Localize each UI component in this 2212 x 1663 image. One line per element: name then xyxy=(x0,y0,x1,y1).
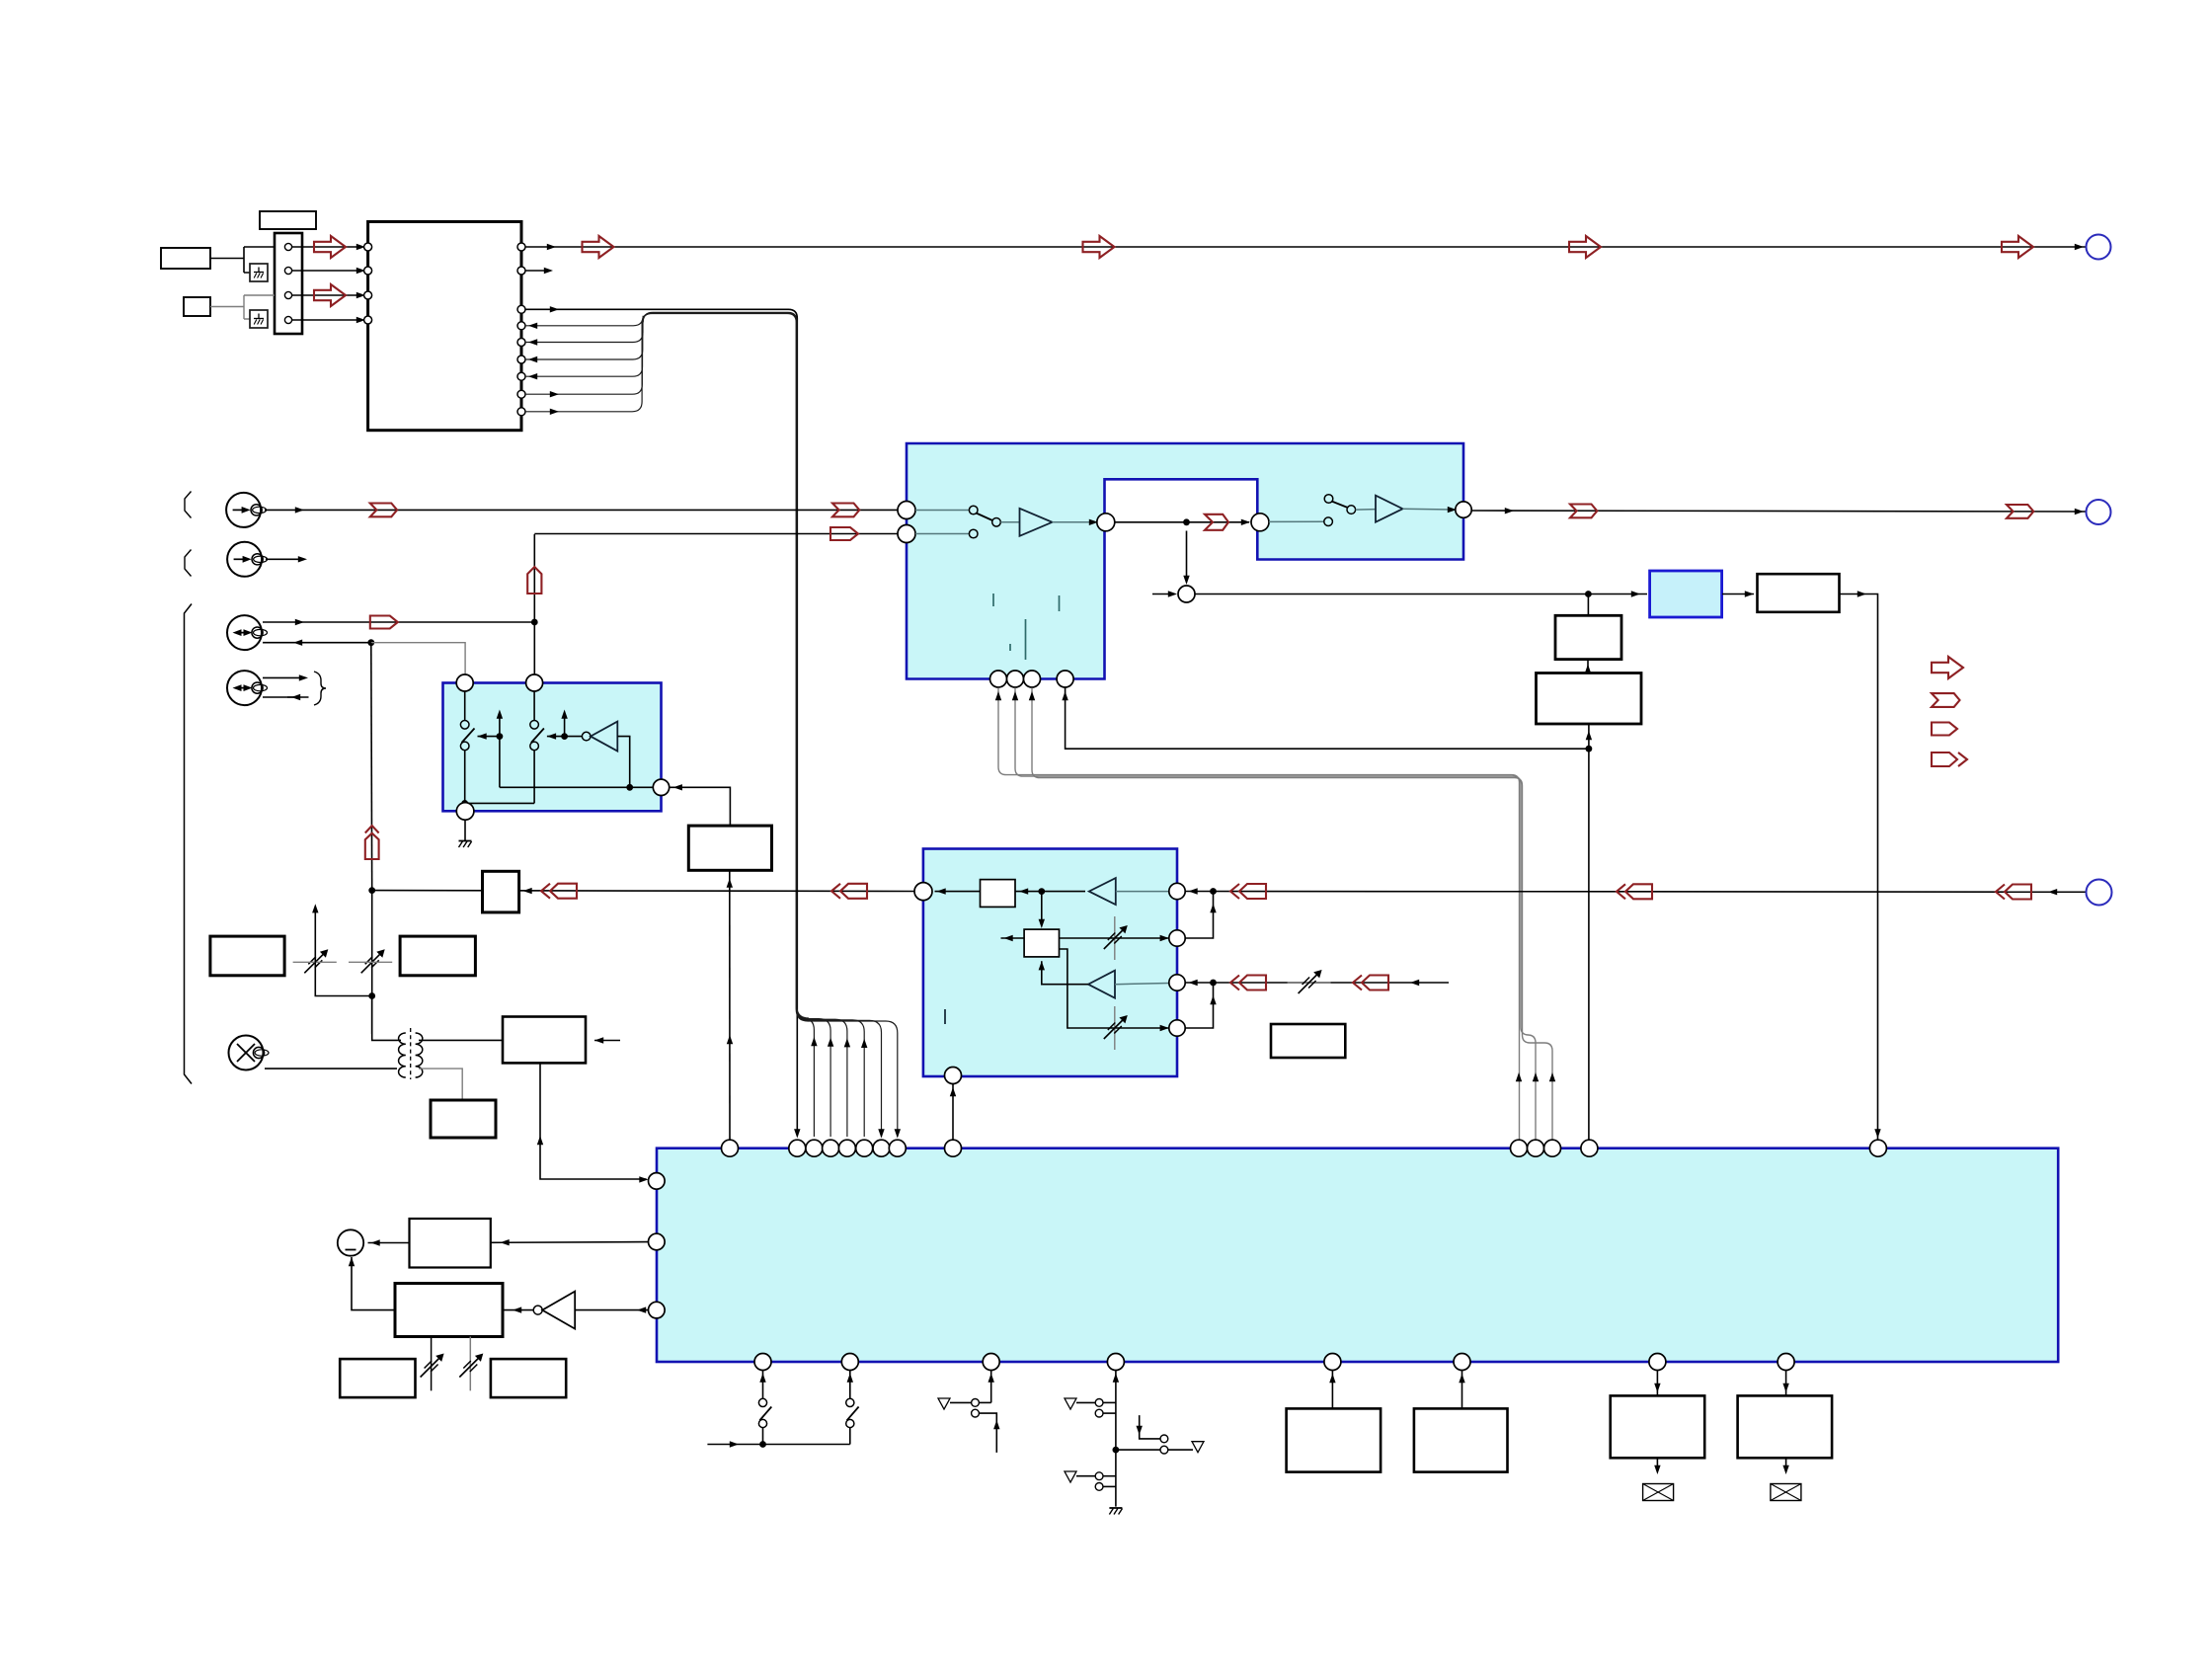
red chev xyxy=(1570,505,1597,518)
wire pin r1 loop xyxy=(1186,892,1214,939)
wire U1 pin5 bundle xyxy=(525,313,830,1137)
stub into sum node xyxy=(1152,594,1173,595)
white box R2 xyxy=(1271,1024,1345,1058)
line y995 right xyxy=(1186,982,1450,984)
white box8 xyxy=(410,1219,491,1268)
block3 box i2 xyxy=(1024,929,1059,957)
block3 pin r1 xyxy=(1169,883,1185,899)
bracket mark 1 xyxy=(185,492,192,518)
block3 i2 right wire pot P1 xyxy=(1060,937,1169,939)
box6 down wire xyxy=(540,1063,647,1179)
U1 right pin y=416.8 xyxy=(517,408,525,416)
pot P3 xyxy=(1288,982,1331,984)
rail block1 out to J-mid xyxy=(1471,511,2086,512)
block1 bottom pins xyxy=(990,671,1007,687)
wire vertical x=541 xyxy=(533,534,535,675)
red arrow pent xyxy=(370,616,398,629)
jack J1 xyxy=(226,493,261,527)
white box WR xyxy=(1758,574,1840,612)
output circle J-mid xyxy=(2087,500,2111,524)
wire U1 pin3 bundle top xyxy=(525,309,797,1136)
U1 left pin y=250 xyxy=(364,243,372,251)
red up arrow tall xyxy=(365,826,379,833)
red chev xyxy=(2007,505,2033,518)
red arrow on top rail xyxy=(1083,236,1115,258)
jack J4 xyxy=(227,671,262,705)
block3 amp L1 xyxy=(1089,878,1116,905)
white box10 xyxy=(340,1359,415,1397)
envelope E1 xyxy=(1643,1484,1674,1501)
white box6 xyxy=(503,1017,586,1064)
legend arrow 2 xyxy=(1932,693,1960,707)
block3 amp2 out xyxy=(1042,961,1088,985)
node circle N1 xyxy=(1097,514,1115,531)
red arrow chevron xyxy=(832,504,859,517)
transformer secondary top lead xyxy=(419,1039,503,1041)
selector C xyxy=(990,1371,992,1403)
block3 pin bottom xyxy=(945,1068,962,1084)
bottom block top pins xyxy=(722,1140,739,1156)
block3 wire dot to i1 xyxy=(1015,891,1085,893)
inverter I2 xyxy=(533,1306,542,1314)
gray bundle wire 2 xyxy=(1015,688,1536,1140)
block2 pin t2 xyxy=(526,674,543,691)
block3 pin r2 xyxy=(1169,930,1185,946)
IC block2 cyan body xyxy=(443,683,662,812)
U1 right pin y=346.5 xyxy=(517,339,525,347)
red arrow pent xyxy=(830,527,858,540)
block1 switch SW2 xyxy=(1324,517,1333,526)
node dot xyxy=(1183,518,1190,525)
IC block1 cyan body xyxy=(907,443,1463,679)
ground G2 xyxy=(250,310,268,328)
red dchevL xyxy=(550,884,577,899)
node dot x=1608 xyxy=(1585,591,1592,597)
label box xyxy=(260,211,316,229)
IC bottom block cyan body xyxy=(657,1148,2058,1362)
box6 right stub xyxy=(594,1040,620,1042)
bottom block bottom pins xyxy=(754,1354,771,1371)
red up arrow xyxy=(527,567,541,594)
wire box9 to sum xyxy=(352,1257,395,1310)
wire U1 pin4 bundle xyxy=(525,312,814,1137)
connector CN1 pin 3 xyxy=(284,291,291,298)
wire box8 to sum xyxy=(368,1242,410,1244)
wire J3 upper xyxy=(263,621,534,623)
node dot y=901.6 xyxy=(368,887,375,894)
red arrow on top rail xyxy=(583,236,614,258)
switch tree A xyxy=(762,1371,764,1399)
block1 pin in2 xyxy=(898,525,915,543)
red dchevL xyxy=(840,884,867,899)
output circle J-bot xyxy=(2087,880,2112,906)
U1 right pin y=364 xyxy=(517,356,525,363)
red dchevL c xyxy=(2005,885,2031,900)
red arrow on top rail xyxy=(2002,236,2033,258)
red arrow chevron xyxy=(370,504,397,517)
pot V1 xyxy=(304,952,325,973)
block2 sw1 tap xyxy=(478,736,500,738)
jack J2 xyxy=(227,542,262,577)
bracket mark 2 xyxy=(185,550,192,577)
bottom block left pins xyxy=(649,1173,666,1190)
U1 left pin y=274 xyxy=(364,267,372,275)
block2 pin t1 xyxy=(456,674,473,691)
block3 i2 left stub xyxy=(1001,937,1025,939)
ground under block2 xyxy=(464,820,466,840)
wire CN1 to U1 y=299 xyxy=(292,294,361,296)
wire pin3 to inverter xyxy=(575,1309,648,1311)
sum node circle xyxy=(1178,586,1195,602)
wire block2 right pin to box5 xyxy=(670,787,731,826)
legend arrow 1 xyxy=(1932,657,1963,678)
wire boxB down xyxy=(1588,724,1590,1140)
tick marks xyxy=(992,594,994,606)
block2 inverter xyxy=(565,736,583,738)
envelope E2 xyxy=(1771,1484,1801,1501)
block3 wire pin3 to amp2 xyxy=(1115,984,1169,985)
legend arrow 3 xyxy=(1932,723,1957,736)
big box U1 xyxy=(368,222,521,431)
block3 amp L2 xyxy=(1088,971,1115,998)
U1 left pin y=299 xyxy=(364,291,372,299)
red arrow xyxy=(314,284,346,306)
ground G1 xyxy=(250,264,268,281)
block3 branch down xyxy=(1060,949,1169,1028)
white box A xyxy=(1555,615,1621,659)
white box5 xyxy=(688,826,771,870)
block3 vert to i2 xyxy=(1041,892,1043,925)
block2 sw bottoms tie xyxy=(465,751,534,804)
wire CN1 to U1 y=324 xyxy=(292,319,361,321)
U1 right pin y=274 xyxy=(517,267,525,275)
wire pin r3 loop xyxy=(1186,983,1214,1028)
stub J4 lower xyxy=(263,696,294,698)
box C1 xyxy=(1287,1408,1382,1471)
node A dot xyxy=(531,619,538,626)
output circle J-top xyxy=(2087,235,2111,260)
block1 switch SW1 xyxy=(915,510,970,512)
top rail wire xyxy=(525,246,2086,248)
wire y=758 to U1 pin4d xyxy=(1066,688,1589,750)
box C3 xyxy=(1611,1395,1705,1458)
block3 wire i1 to pin xyxy=(935,891,981,893)
white box4 xyxy=(400,936,475,976)
block1 pin out xyxy=(1456,502,1471,517)
connector CN1 xyxy=(275,233,302,334)
block3 pin left xyxy=(914,883,932,901)
wire block3 bottom to bottom block xyxy=(952,1084,954,1140)
wire boxB to boxA xyxy=(1587,660,1589,673)
box C4 xyxy=(1738,1395,1833,1458)
sum circle minus xyxy=(338,1229,363,1255)
wire U1 pin9 bundle xyxy=(525,314,898,1138)
gray bundle wire 1 xyxy=(998,688,1520,1140)
U1 right pin y=250 xyxy=(517,243,525,251)
block2 pin right xyxy=(653,779,669,795)
white box7 xyxy=(431,1100,496,1138)
wire in notch xyxy=(1115,521,1249,523)
block2 pin bottom xyxy=(456,803,474,821)
wire amp to notch node xyxy=(1053,521,1095,523)
block1 amp A1 xyxy=(1000,521,1019,523)
white box B xyxy=(1537,673,1642,725)
connector CN1 pin 2 xyxy=(284,267,291,274)
connector CN1 pin 1 xyxy=(284,243,291,250)
wire dot to box A xyxy=(1587,594,1589,616)
wire U1 pin7 bundle xyxy=(525,313,864,1137)
wire CN1 to U1 y=274 xyxy=(292,270,361,272)
IC block3 cyan body xyxy=(923,849,1177,1077)
wire J1 to IC201 pin1 xyxy=(265,509,899,511)
block2 net y=797 xyxy=(500,786,654,788)
block2 inv out wire xyxy=(617,737,629,788)
block3 box i1 xyxy=(981,880,1016,908)
wire W2 to CN1 xyxy=(210,295,275,319)
white box W2 xyxy=(184,297,210,316)
transformer T1 xyxy=(399,1033,406,1077)
block3 tick xyxy=(944,1009,946,1024)
stub wire U1 pin2 xyxy=(525,270,549,272)
jack J5 xyxy=(229,1036,264,1070)
wire notch dot down xyxy=(1186,531,1188,583)
switch tree B xyxy=(849,1428,851,1445)
wire U1 pin6 bundle xyxy=(525,313,847,1137)
block3 pin r4 xyxy=(1169,1020,1185,1036)
red arrow on top rail xyxy=(1569,236,1601,258)
block2 sw2 xyxy=(533,691,535,721)
node circle N2 xyxy=(1251,514,1269,531)
wire sum node to SB box xyxy=(1195,594,1647,595)
wire W1 to CN1 xyxy=(210,247,275,273)
red dchevL e xyxy=(1362,976,1388,990)
white box W1 xyxy=(161,248,210,269)
wire main vertical x=376.7 xyxy=(370,643,373,891)
node B dot xyxy=(367,639,374,646)
ground under selector D xyxy=(1109,1507,1122,1509)
block1 amp A2 xyxy=(1356,509,1376,512)
U1 right pin y=329.8 xyxy=(517,322,525,330)
wire inverter to box9 xyxy=(503,1309,533,1311)
gray bundle wire 3 xyxy=(1032,688,1552,1140)
wire WR to corner down xyxy=(1840,594,1878,1140)
block3 pin r3 xyxy=(1169,975,1185,990)
legend arrow 4 xyxy=(1932,752,1957,766)
red dchevL a xyxy=(1239,884,1266,899)
brace xyxy=(314,672,326,705)
wire SB to WR xyxy=(1722,594,1754,595)
white box11 xyxy=(491,1359,566,1397)
pot V2 xyxy=(361,952,382,973)
wire to IC201 pin2 xyxy=(534,533,898,535)
box9 pots xyxy=(431,1337,433,1391)
node dot y=758 xyxy=(1586,746,1593,752)
block2 sw1 xyxy=(464,691,466,721)
selector D xyxy=(1115,1371,1117,1507)
wire box5 down to bottom block xyxy=(729,870,731,1139)
U1 right pin y=313.3 xyxy=(517,305,525,313)
white box SQ on y902 xyxy=(483,871,519,912)
U1 right pin y=381.2 xyxy=(517,372,525,380)
white box9 xyxy=(395,1284,503,1337)
left bracket xyxy=(185,604,193,1084)
line y902 left segment xyxy=(372,890,914,893)
stub J4 upper xyxy=(263,676,304,678)
connector CN1 pin 4 xyxy=(284,316,291,323)
red arrow xyxy=(314,236,346,258)
line y902 right segment xyxy=(1186,891,2087,894)
stub wire J2 xyxy=(266,558,303,560)
wire J3 lower xyxy=(263,642,371,644)
U1 right pin y=399.2 xyxy=(517,390,525,398)
wire to SW2 xyxy=(1269,520,1324,522)
box C2 xyxy=(1414,1408,1508,1471)
U1 left pin y=324 xyxy=(364,316,372,324)
red dchevL b xyxy=(1625,884,1652,899)
block3 wire pin1 to amp xyxy=(1116,891,1169,893)
red arrow chev small xyxy=(1205,515,1228,530)
wire U1 pin8 bundle xyxy=(525,313,882,1137)
wire gray to SW block xyxy=(371,643,465,675)
red dchevL d xyxy=(1239,976,1266,990)
node dot y=1008.5 xyxy=(368,992,375,999)
jack J3 xyxy=(227,615,262,650)
wire CN1 to U1 y=250 xyxy=(292,246,361,248)
wire J5 to transformer xyxy=(265,1068,397,1069)
white box3 xyxy=(210,936,284,976)
wire amp2 to out pin xyxy=(1403,508,1454,511)
block2 sw2 tap xyxy=(547,736,565,738)
wire pin to box8 xyxy=(491,1241,649,1244)
block1 pin in1 xyxy=(898,502,915,519)
corner to transformer xyxy=(372,996,397,1041)
transformer secondary bottom lead xyxy=(419,1069,462,1100)
small cyan box SB xyxy=(1650,571,1722,617)
